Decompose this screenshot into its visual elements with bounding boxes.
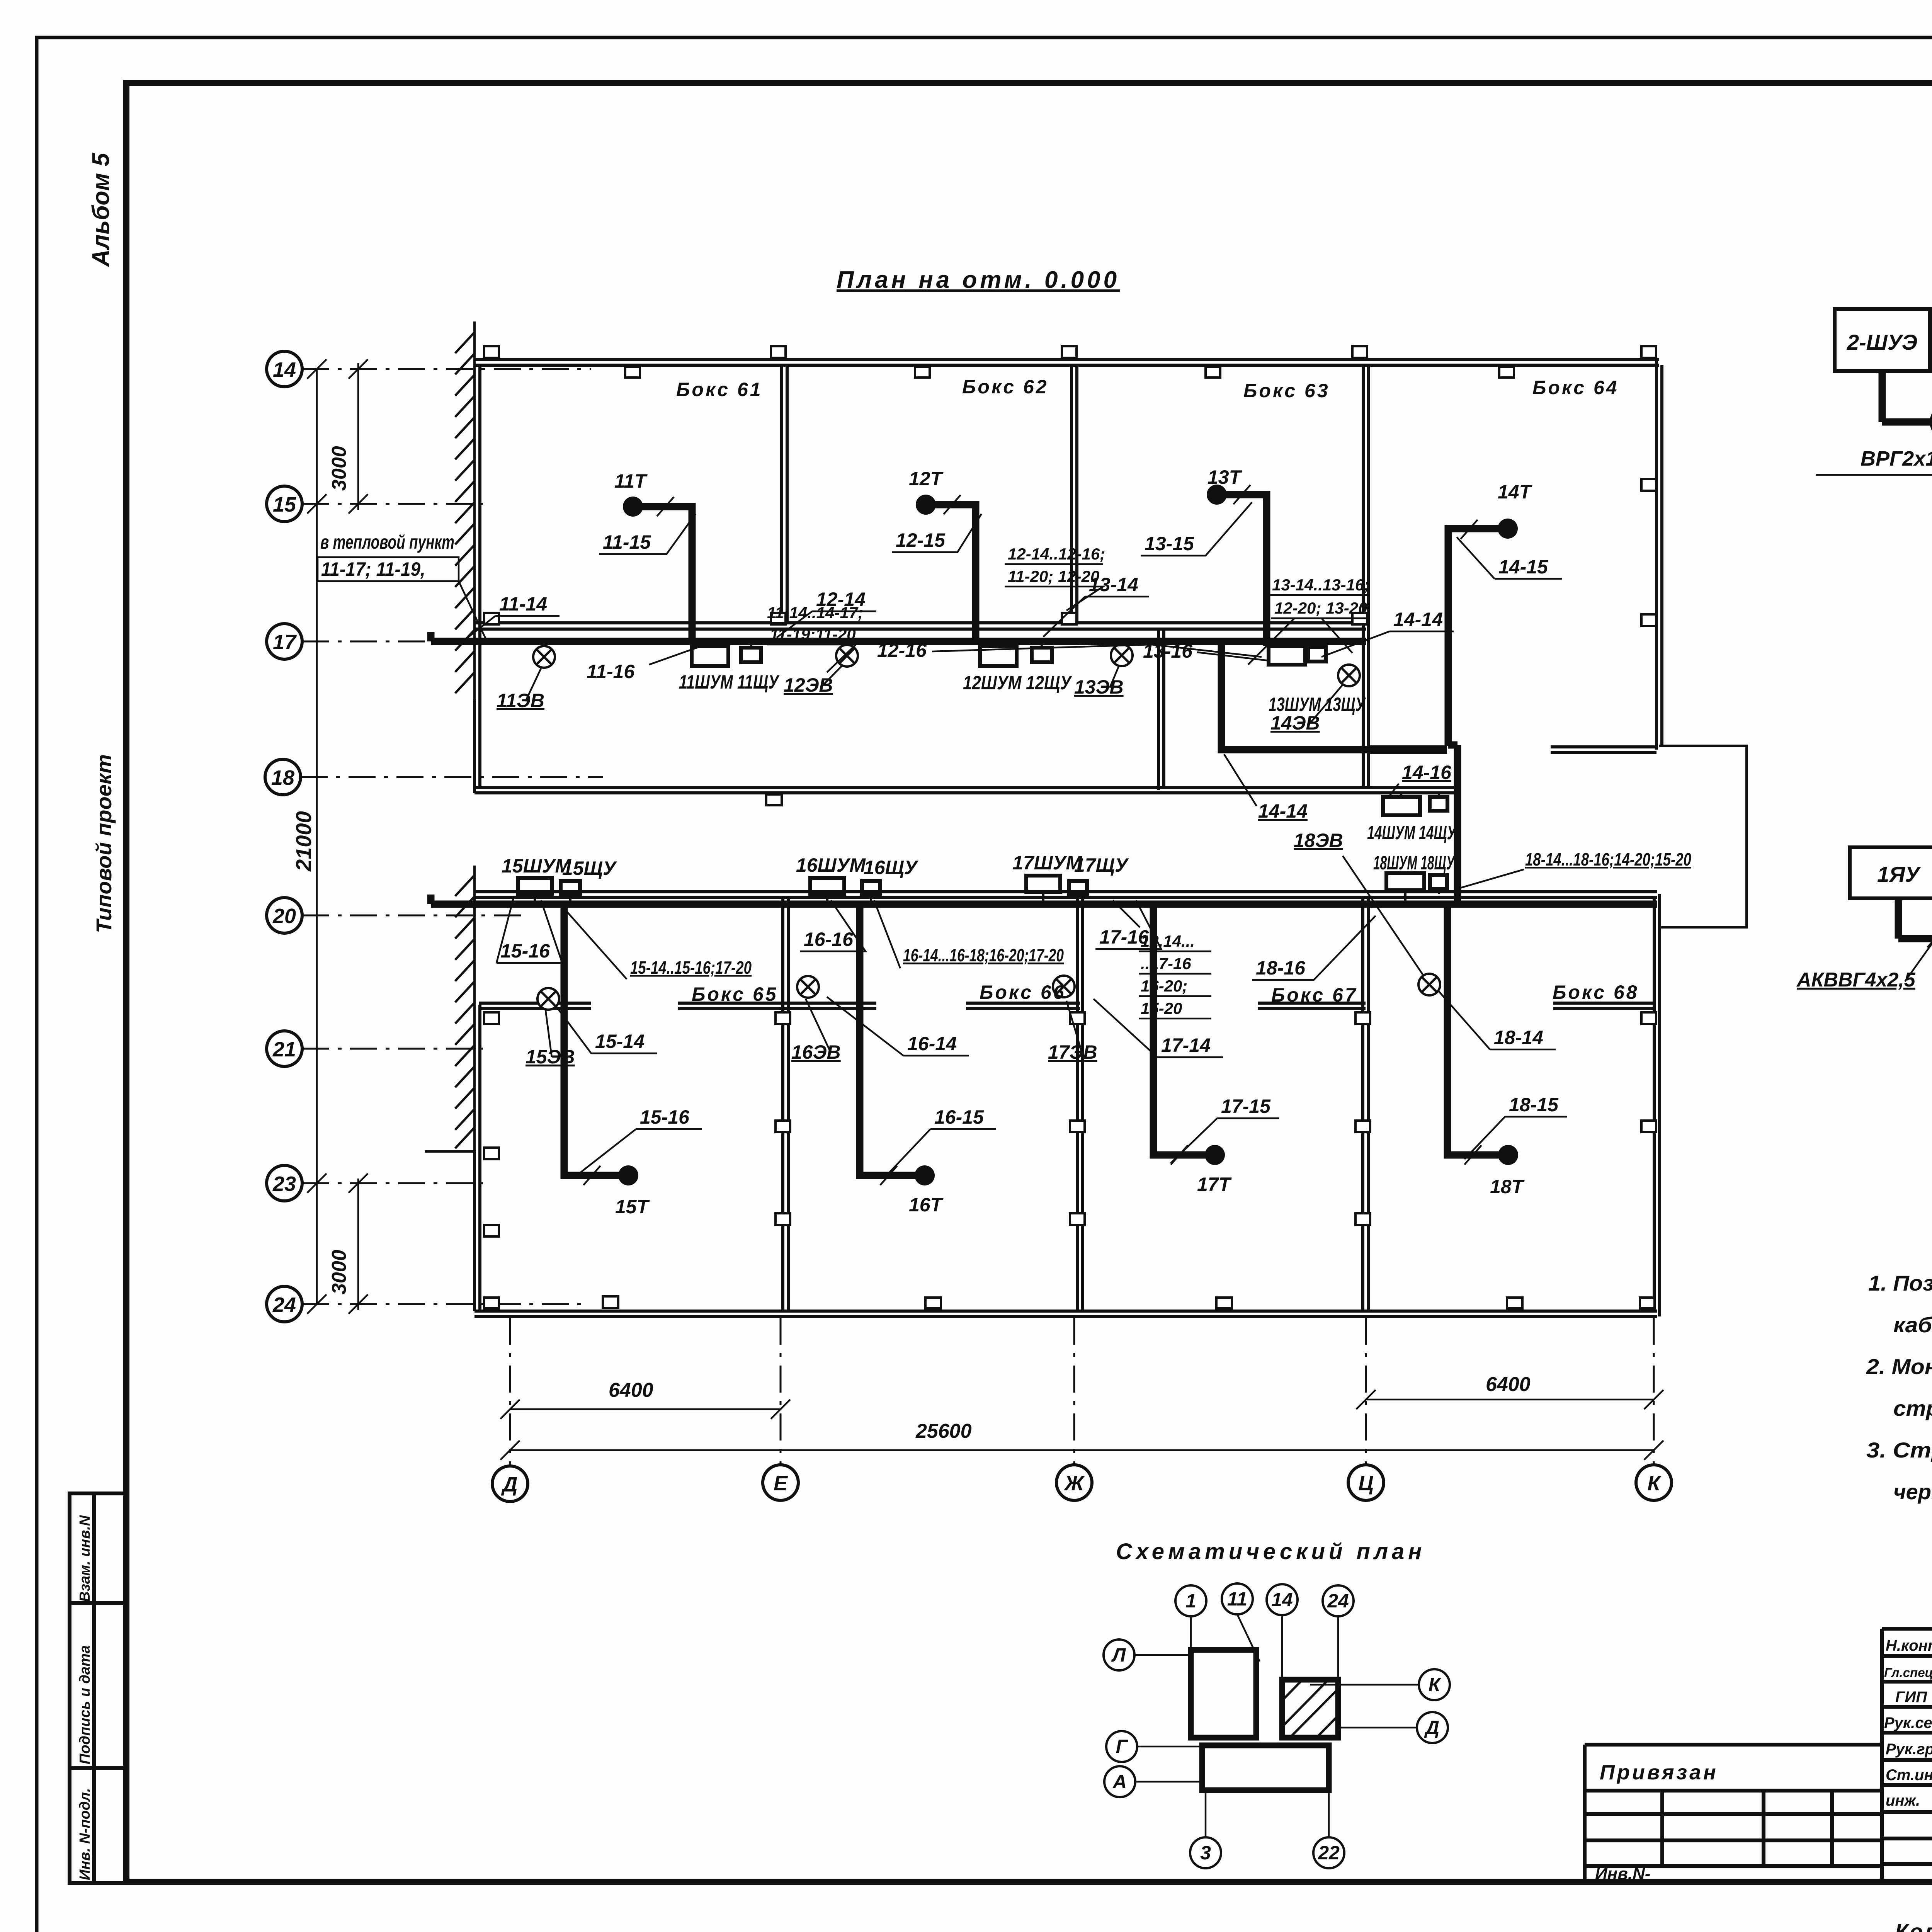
svg-text:Е: Е	[774, 1472, 788, 1495]
axis circle 17	[267, 624, 302, 659]
axis row circles 14..24	[265, 351, 302, 1322]
key plan circle 14	[1267, 1584, 1298, 1615]
svg-text:чертежей ВК-6: чертежей ВК-6	[1893, 1480, 1932, 1504]
svg-text:Бокс 62: Бокс 62	[962, 376, 1049, 398]
lower right wall	[1654, 894, 1660, 1316]
svg-text:Л: Л	[1111, 1644, 1126, 1666]
sensor 17Т	[1205, 1145, 1225, 1165]
svg-text:13-15: 13-15	[1145, 533, 1194, 554]
cabinet 18ЩУ	[1430, 875, 1447, 889]
svg-text:К: К	[1429, 1674, 1442, 1696]
upper left wall	[478, 365, 481, 787]
svg-text:15-14..15-16;17-20: 15-14..15-16;17-20	[630, 957, 752, 978]
lower bottom wall	[474, 1311, 1657, 1316]
cable 12: sensor 12Т	[916, 495, 936, 515]
svg-text:16-16: 16-16	[804, 929, 854, 950]
svg-text:кабелей и труб соответствуют с: кабелей и труб соответствуют схеме соеди…	[1893, 1313, 1932, 1337]
cabinet 14ШУМ	[1383, 797, 1420, 815]
dimension line 3000 bottom	[357, 1179, 359, 1310]
svg-text:12-14..12-16;: 12-14..12-16;	[1008, 545, 1105, 563]
svg-text:Ц: Ц	[1358, 1472, 1373, 1495]
svg-text:11-20; 12-20: 11-20; 12-20	[1008, 567, 1099, 585]
svg-text:13-16: 13-16	[1143, 640, 1193, 662]
svg-text:2-ШУЭ: 2-ШУЭ	[1847, 330, 1917, 354]
svg-text:15-14: 15-14	[595, 1031, 645, 1052]
partition Бокс 65/66	[783, 899, 788, 1311]
key plan circle А	[1104, 1766, 1135, 1797]
svg-text:17-15: 17-15	[1221, 1095, 1271, 1117]
cable 11 run	[638, 507, 692, 641]
svg-text:16ШУМ: 16ШУМ	[796, 854, 866, 876]
Бокс 64 bottom wall	[1369, 747, 1656, 752]
svg-text:ВРГ2х1: ВРГ2х1	[1861, 447, 1932, 470]
svg-text:18-16: 18-16	[1256, 957, 1306, 979]
svg-text:Рук.гр.: Рук.гр.	[1886, 1741, 1932, 1758]
axis circle 24	[267, 1286, 302, 1322]
cable 16 run	[860, 904, 919, 1175]
upper bottom wall	[474, 787, 1456, 793]
svg-text:11Т: 11Т	[614, 470, 648, 492]
svg-text:24: 24	[1327, 1590, 1349, 1612]
axis 17 wall	[474, 623, 1366, 629]
key plan circle 24	[1323, 1585, 1354, 1616]
svg-text:18: 18	[271, 766, 294, 789]
svg-text:3000: 3000	[328, 446, 350, 491]
svg-text:14-15: 14-15	[1498, 556, 1548, 578]
cabinet 17ЩУ	[1069, 881, 1087, 894]
svg-text:23: 23	[272, 1172, 296, 1196]
svg-text:15-20: 15-20	[1141, 999, 1182, 1017]
svg-text:11ШУМ 11ЩУ: 11ШУМ 11ЩУ	[679, 671, 780, 693]
cable mark 12	[944, 495, 961, 514]
dim ticks on 21000 chain	[307, 359, 327, 1314]
key plan circle 1	[1175, 1585, 1206, 1616]
svg-text:14ШУМ 14ЩУ: 14ШУМ 14ЩУ	[1367, 822, 1457, 844]
key plan circle Л	[1104, 1639, 1134, 1670]
svg-text:АКВВГ4х2,5: АКВВГ4х2,5	[1796, 969, 1916, 991]
axis circle Ж	[1056, 1465, 1092, 1500]
cable 11: sensor 11Т	[623, 497, 643, 517]
svg-text:12Т: 12Т	[909, 468, 944, 490]
svg-text:инж.: инж.	[1886, 1792, 1920, 1809]
svg-text:22: 22	[1318, 1842, 1340, 1864]
svg-text:15-16: 15-16	[640, 1106, 690, 1128]
partition Бокс 62/63	[1071, 365, 1077, 623]
cabinet 14ЩУ	[1430, 797, 1447, 811]
svg-text:18ШУМ 18ЩУ: 18ШУМ 18ЩУ	[1373, 852, 1456, 874]
svg-text:в тепловой пункт: в тепловой пункт	[320, 531, 454, 553]
stamp box Взам. инв. N	[70, 1493, 126, 1603]
svg-text:17-14: 17-14	[1161, 1034, 1211, 1056]
cable mark 15	[583, 1166, 600, 1185]
svg-text:17: 17	[273, 631, 297, 654]
svg-text:Бокс 65: Бокс 65	[692, 983, 778, 1005]
existing wall hatching upper	[455, 321, 474, 699]
svg-text:6400: 6400	[1486, 1373, 1531, 1396]
axis 18 dash-dot line	[301, 776, 603, 778]
axis circle Д	[492, 1466, 528, 1502]
cabinet drops lower	[535, 890, 1405, 902]
svg-text:строительным нормам и правилам: строительным нормам и правилам СНиП 3.05…	[1893, 1396, 1932, 1420]
svg-text:3: 3	[1200, 1842, 1211, 1864]
cabinet 12ЩУ	[1032, 648, 1052, 662]
svg-text:25600: 25600	[915, 1420, 972, 1442]
sensor 16Т	[915, 1165, 935, 1185]
cable mark 13	[1233, 485, 1250, 504]
svg-text:Г: Г	[1116, 1736, 1129, 1757]
partition Бокс 66/67	[1077, 899, 1083, 1311]
svg-text:16-14: 16-14	[907, 1033, 957, 1054]
svg-text:1: 1	[1185, 1590, 1196, 1612]
svg-text:16ЩУ: 16ЩУ	[864, 857, 919, 878]
cabinet box 2-ШУЭ	[1835, 309, 1930, 371]
svg-text:16-14...16-18;16-20;17-20: 16-14...16-18;16-20;17-20	[903, 945, 1064, 965]
svg-text:Ж: Ж	[1063, 1472, 1085, 1495]
cable run 14-14 vestibule	[1221, 641, 1447, 750]
wall at x3005	[1158, 629, 1164, 790]
cabinet 11ЩУ	[741, 648, 761, 662]
svg-text:А: А	[1112, 1771, 1127, 1793]
svg-text:1ЯУ: 1ЯУ	[1877, 862, 1921, 886]
key plan circle 22	[1313, 1837, 1344, 1868]
lower inner wall segments	[479, 1003, 1654, 1009]
svg-text:14: 14	[1271, 1589, 1293, 1611]
axis circle 20	[267, 898, 302, 933]
key plan building block 2	[1202, 1745, 1329, 1790]
svg-text:12ЭВ: 12ЭВ	[784, 674, 833, 696]
cabinet 13ЩУ	[1308, 647, 1326, 662]
cable mark 18	[1464, 1145, 1481, 1165]
key plan building block 1	[1191, 1650, 1256, 1738]
svg-text:12-15: 12-15	[896, 529, 946, 551]
axis circle Е	[763, 1465, 798, 1500]
cable 12 run	[931, 505, 976, 641]
svg-text:Бокс 66: Бокс 66	[980, 981, 1066, 1003]
svg-text:Схематический план: Схематический план	[1116, 1539, 1425, 1564]
svg-text:16-15: 16-15	[934, 1106, 984, 1128]
svg-text:Д: Д	[1424, 1717, 1439, 1738]
cabinet 12ШУМ	[980, 646, 1017, 666]
stamp box Подпись и дата	[70, 1603, 126, 1768]
dimension line 6400 right	[1366, 1399, 1654, 1401]
svg-text:16-20;: 16-20;	[1141, 977, 1187, 995]
key plan circle Г	[1106, 1731, 1137, 1762]
right connector protrusion	[1659, 746, 1747, 927]
stamp box Инв. N подл.	[70, 1768, 126, 1883]
svg-text:11-17; 11-19,: 11-17; 11-19,	[321, 558, 425, 580]
cable 14 run	[1448, 529, 1502, 746]
svg-text:24: 24	[272, 1293, 296, 1316]
column marks lower walls	[484, 1012, 1656, 1308]
svg-text:17Т: 17Т	[1197, 1173, 1232, 1195]
dimension line 25600	[510, 1449, 1654, 1451]
lamp 12ЭВ	[836, 645, 858, 667]
svg-text:3000: 3000	[328, 1250, 350, 1294]
svg-text:11: 11	[1227, 1588, 1247, 1610]
upper left wall outer line	[473, 699, 476, 793]
lamp 18ЭВ	[1418, 974, 1440, 995]
cable mark 14	[1461, 520, 1478, 539]
vertical dimension chain 21000	[316, 369, 318, 1304]
svg-text:11-19;11-20: 11-19;11-20	[770, 625, 856, 643]
svg-text:15ЩУ: 15ЩУ	[562, 857, 617, 879]
svg-text:11-16: 11-16	[587, 661, 635, 682]
lamp 17ЭВ	[1053, 976, 1075, 997]
svg-text:Бокс 67: Бокс 67	[1271, 984, 1358, 1006]
wall stub below Бокс 63/64 partition	[1363, 752, 1369, 787]
cabinet 18ШУМ	[1386, 873, 1424, 890]
cable 13: sensor 13Т	[1207, 485, 1227, 505]
axis circle К	[1636, 1465, 1672, 1500]
cabinet 16ЩУ	[862, 881, 880, 894]
key plan circle К	[1419, 1669, 1450, 1700]
svg-text:13-14..13-16;: 13-14..13-16;	[1272, 576, 1369, 594]
svg-text:11ЭВ: 11ЭВ	[497, 690, 544, 711]
svg-text:1. Позиции монтируемых приборо: 1. Позиции монтируемых приборов и аппара…	[1868, 1271, 1932, 1295]
svg-text:Ст.инж: Ст.инж	[1886, 1767, 1932, 1784]
lamp 14ЭВ	[1338, 665, 1360, 686]
junction circle 1	[1931, 406, 1932, 438]
key plan hatched block	[1282, 1680, 1338, 1738]
axis circle 18	[265, 759, 301, 795]
signature table role column	[1884, 1637, 1932, 1809]
svg-text:11-14: 11-14	[499, 593, 547, 615]
svg-text:К: К	[1647, 1472, 1662, 1495]
svg-text:11-15: 11-15	[603, 531, 651, 553]
signature table grid	[1882, 1629, 1932, 1882]
left attach box Привязан	[1585, 1745, 1882, 1882]
lamp 15ЭВ	[537, 988, 559, 1010]
svg-text:12-16: 12-16	[877, 639, 927, 661]
cabinet 15ЩУ	[561, 881, 580, 894]
svg-text:14ЭВ: 14ЭВ	[1270, 712, 1320, 734]
key plan circle 3	[1190, 1837, 1221, 1868]
svg-text:14: 14	[273, 358, 296, 381]
dimension line 3000 top	[357, 363, 359, 510]
svg-text:18Т: 18Т	[1490, 1176, 1525, 1197]
svg-text:Типовой проект: Типовой проект	[92, 754, 116, 933]
lamp 16ЭВ	[797, 976, 819, 998]
key plan circle 11	[1222, 1583, 1253, 1614]
axis 15 dash-dot line	[302, 503, 483, 505]
svg-text:Н.контр: Н.контр	[1886, 1637, 1932, 1654]
cabinet 13ШУМ	[1269, 646, 1305, 665]
axis 20 dash-dot line	[302, 915, 526, 917]
upper right wall	[1656, 359, 1662, 750]
existing wall hatching lower	[425, 866, 475, 1151]
cable bus axis 17	[431, 632, 1366, 641]
svg-text:Бокс 63: Бокс 63	[1243, 380, 1330, 401]
svg-text:15: 15	[273, 493, 296, 516]
ШУМ row1 bus	[1882, 371, 1932, 500]
column marks upper walls	[484, 346, 1656, 805]
svg-text:18ЭВ: 18ЭВ	[1294, 830, 1343, 851]
svg-text:14-14: 14-14	[1258, 800, 1308, 822]
svg-text:13ЭВ: 13ЭВ	[1074, 676, 1124, 698]
cable mark 16	[880, 1166, 897, 1185]
axis 14 dash-dot line	[302, 368, 591, 370]
svg-text:15Т: 15Т	[615, 1196, 650, 1218]
svg-text:Бокс 68: Бокс 68	[1553, 981, 1639, 1003]
svg-text:Взам. инв.N: Взам. инв.N	[77, 1515, 93, 1602]
svg-text:17ЭВ: 17ЭВ	[1048, 1041, 1097, 1063]
axis 17 dash-dot line	[302, 641, 526, 643]
svg-text:Привязан: Привязан	[1600, 1761, 1718, 1784]
sensor 15Т	[618, 1165, 638, 1185]
svg-text:Подпись и дата: Подпись и дата	[77, 1645, 93, 1764]
cable 14: sensor 14Т	[1498, 519, 1518, 539]
svg-text:21: 21	[272, 1038, 296, 1061]
sensor 18Т	[1498, 1145, 1518, 1165]
axis 24 dash-dot line	[302, 1303, 587, 1305]
lamp 13ЭВ	[1111, 645, 1133, 666]
cabinet 16ШУМ	[810, 878, 844, 894]
cable 17 run	[1153, 904, 1209, 1155]
svg-text:18-14...18-16;14-20;15-20: 18-14...18-16;14-20;15-20	[1525, 849, 1691, 869]
vertical dash-dot droppers to letter axes	[510, 1318, 1654, 1466]
partition Бокс 61/62	[782, 365, 787, 623]
svg-text:14-16: 14-16	[1402, 762, 1452, 783]
ЩУ row1 bus	[1898, 898, 1932, 1028]
svg-text:13Т: 13Т	[1207, 466, 1243, 488]
svg-text:Альбом 5: Альбом 5	[88, 152, 114, 267]
svg-text:17ШУМ: 17ШУМ	[1012, 852, 1082, 874]
axis circle 21	[267, 1031, 302, 1066]
svg-text:..17-16: ..17-16	[1141, 954, 1191, 973]
axis circle 15	[267, 486, 302, 522]
axis 23 dash-dot line	[302, 1182, 483, 1184]
svg-text:12ШУМ 12ЩУ: 12ШУМ 12ЩУ	[963, 672, 1072, 694]
tick marks ЩУ bus	[1927, 930, 1932, 947]
svg-text:Бокс 61: Бокс 61	[676, 379, 763, 400]
cable link vestibule right	[1454, 745, 1461, 904]
cable 18 run	[1447, 904, 1503, 1155]
svg-text:3. Стрительная и технологическ: 3. Стрительная и технологическая часть в…	[1866, 1438, 1932, 1462]
svg-text:ГИП: ГИП	[1895, 1689, 1927, 1706]
svg-text:2. Монтаж приборов и средств а: 2. Монтаж приборов и средств автоматизац…	[1866, 1354, 1932, 1379]
svg-text:11-14..14-17;: 11-14..14-17;	[767, 604, 863, 622]
cable 15 run	[564, 904, 623, 1175]
svg-text:12.14...: 12.14...	[1141, 932, 1195, 950]
cabinet 17ШУМ	[1026, 876, 1060, 892]
svg-text:14-14: 14-14	[1393, 609, 1443, 630]
svg-text:13ШУМ 13ЩУ: 13ШУМ 13ЩУ	[1269, 694, 1366, 715]
cabinet box 1ЯУ	[1850, 847, 1932, 898]
svg-text:15-16: 15-16	[500, 940, 550, 962]
partition Бокс 67/68	[1363, 899, 1368, 1311]
cabinet 15ШУМ	[518, 878, 552, 894]
cable mark 17	[1171, 1145, 1188, 1165]
svg-text:18-15: 18-15	[1509, 1094, 1559, 1116]
cabinet 11ШУМ	[692, 646, 728, 666]
lower top wall	[474, 892, 1657, 897]
svg-text:20: 20	[272, 905, 296, 928]
svg-text:Бокс 64: Бокс 64	[1532, 377, 1619, 398]
svg-text:6400: 6400	[609, 1379, 653, 1401]
key plan leader lines	[1134, 1614, 1419, 1837]
svg-text:Рук.сект.: Рук.сект.	[1884, 1714, 1932, 1731]
svg-text:Гл.спец.отд: Гл.спец.отд	[1884, 1665, 1932, 1680]
svg-text:Копировал Омельченко: Копировал Омельченко	[1895, 1919, 1932, 1932]
svg-text:Инв. N-подл.: Инв. N-подл.	[77, 1788, 93, 1880]
svg-text:14Т: 14Т	[1498, 481, 1533, 503]
axis circle 23	[267, 1165, 302, 1201]
axis circle 14	[267, 351, 302, 387]
svg-text:17ЩУ: 17ЩУ	[1074, 854, 1129, 876]
svg-text:16ЭВ: 16ЭВ	[791, 1041, 841, 1063]
svg-text:Инв.N-: Инв.N-	[1595, 1864, 1650, 1883]
key plan circle Д	[1417, 1712, 1448, 1743]
svg-text:16Т: 16Т	[909, 1194, 944, 1216]
upper top wall	[474, 359, 1659, 365]
svg-text:15ШУМ: 15ШУМ	[502, 855, 571, 877]
lower left wall	[474, 1005, 480, 1311]
cable bus axis 20	[431, 895, 1657, 904]
lamp 11ЭВ	[533, 646, 555, 668]
axis letter circles Д Е Ж Ц К	[492, 1465, 1672, 1502]
cabinet drops upper	[710, 645, 1439, 894]
svg-text:21000: 21000	[291, 811, 316, 872]
dimension line 6400 left	[510, 1408, 781, 1410]
axis 21 dash-dot line	[302, 1048, 483, 1050]
cable mark 11	[657, 497, 674, 516]
partition Бокс 63/64	[1363, 365, 1369, 750]
svg-text:18-14: 18-14	[1494, 1027, 1543, 1048]
svg-text:План на отм. 0.000: План на отм. 0.000	[837, 267, 1120, 293]
svg-text:Д: Д	[501, 1473, 518, 1496]
axis circle Ц	[1348, 1465, 1384, 1500]
cable 13 run	[1222, 495, 1267, 646]
svg-text:12-20; 13-20: 12-20; 13-20	[1274, 599, 1367, 617]
